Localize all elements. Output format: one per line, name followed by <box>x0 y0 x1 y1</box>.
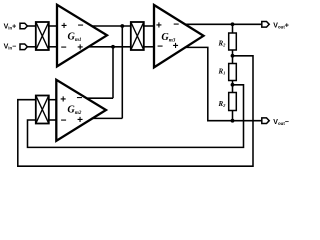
terminal Vin- <box>20 44 27 50</box>
svg-text:−: − <box>61 115 67 126</box>
svg-text:+: + <box>61 21 67 32</box>
node Vout+ junction <box>231 22 235 26</box>
resistor R2 top <box>229 33 237 50</box>
wire R1 to tap2 <box>232 81 234 93</box>
wire vertical from bottom row down to Gm2 upper output <box>112 47 114 98</box>
svg-text:−: − <box>61 42 67 53</box>
wire Vin- to chopper CH1 <box>28 46 36 48</box>
wire vertical from top row down to Gm2 lower output <box>121 26 123 118</box>
resistor R1 <box>229 64 237 81</box>
svg-text:Vout−: Vout− <box>273 119 289 126</box>
node Vout+ label <box>273 22 289 29</box>
wire R2 bottom to Vout- node <box>232 111 234 121</box>
wire CH2 to Gm3 - input <box>144 46 154 48</box>
svg-text:−: − <box>78 21 84 32</box>
node Vout- label <box>273 119 289 126</box>
node Vout- junction <box>231 119 235 123</box>
node tap2 <box>231 83 235 87</box>
wire Vout+ node to resistor R2 top <box>232 24 234 33</box>
node Vin+ label <box>4 23 17 30</box>
wire inner feedback loop tap2 to CH3 bottom input <box>28 85 244 148</box>
svg-text:+: + <box>77 42 83 53</box>
wire CH3 to Gm2 - input <box>49 119 57 121</box>
svg-text:−: − <box>173 20 179 31</box>
wire Vin+ to chopper CH1 <box>28 25 36 27</box>
wire CH1 to Gm1 + input <box>49 25 57 27</box>
wire Gm3 bottom output down and right to Vout- <box>184 47 262 120</box>
wire CH3 to Gm2 + input <box>49 99 57 101</box>
chopper CH1 <box>36 22 49 50</box>
terminal Vin+ <box>20 23 27 29</box>
svg-text:−: − <box>77 93 83 104</box>
chopper CH3 <box>36 96 49 124</box>
svg-text:Vout+: Vout+ <box>273 22 289 29</box>
wire outer feedback loop tap1 to CH3 top input <box>18 56 253 166</box>
svg-text:+: + <box>77 115 83 126</box>
resistor R2 bottom <box>229 93 237 111</box>
wire R2 to tap1 <box>232 50 234 64</box>
wire Gm3 top output to Vout+ terminal <box>186 23 263 25</box>
wire Gm2 lower output to vertical B <box>91 117 122 119</box>
svg-text:Vin−: Vin− <box>4 43 17 50</box>
node junction top row <box>120 24 124 28</box>
wire CH1 to Gm1 - input <box>49 46 57 48</box>
node junction bottom row <box>111 45 115 49</box>
wire Gm1 top output to CH2 <box>92 25 131 27</box>
node Vin- label <box>4 43 17 50</box>
op-amp Gm3 <box>154 5 204 67</box>
svg-text:+: + <box>156 21 162 32</box>
svg-text:Vin+: Vin+ <box>4 23 17 30</box>
op-amp Gm1 <box>57 5 107 67</box>
svg-text:+: + <box>60 94 66 105</box>
wire Gm2 upper output to vertical A <box>87 97 114 99</box>
node tap1 <box>231 54 235 58</box>
terminal Vout- <box>262 118 269 124</box>
wire CH2 to Gm3 + input <box>144 25 154 27</box>
wire Gm1 bottom output to CH2 <box>89 46 131 48</box>
op-amp Gm2 <box>56 80 106 141</box>
terminal Vout+ <box>262 22 269 28</box>
chopper CH2 <box>131 22 144 50</box>
